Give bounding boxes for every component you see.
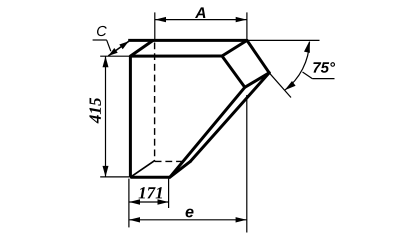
C measuring double arrow along chamfer: [108, 41, 128, 56]
415 top extension line: [100, 55, 129, 57]
back 75-degree face edge: [247, 40, 269, 72]
e right extension line: [246, 95, 248, 233]
415 bottom extension line: [100, 176, 129, 178]
A dimension line: [155, 19, 247, 21]
hidden back bottom edge (dashed): [155, 160, 186, 162]
415 dimension line: [105, 56, 107, 177]
A label: [195, 7, 205, 18]
angle horizontal reference line: [248, 39, 320, 41]
171 dimension line: [129, 201, 169, 203]
415 label: [89, 98, 101, 124]
A right extension line: [246, 12, 248, 39]
bottom-right receding edge: [170, 161, 191, 177]
A left extension line: [154, 12, 156, 41]
workpiece bottom edge: [130, 176, 170, 179]
C leader: [107, 40, 111, 51]
75 label leader: [303, 72, 313, 79]
171 left extension line: [128, 179, 130, 228]
workpiece front top edge: [130, 55, 222, 58]
hidden back-left vertical edge (dashed): [154, 43, 156, 161]
e dimension line: [129, 219, 247, 221]
75-degree face bottom edge: [245, 73, 269, 88]
C label: [97, 26, 107, 36]
workpiece front mitre diagonal: [170, 87, 245, 177]
e label: [186, 209, 194, 218]
workpiece left edge: [129, 56, 132, 177]
75 label underline: [312, 78, 334, 80]
75 degree label: [313, 62, 335, 73]
workpiece front 75-degree face edge: [222, 56, 245, 87]
bottom-left receding edge: [130, 161, 154, 178]
C underline: [93, 39, 107, 41]
top-right receding edge: [222, 40, 247, 56]
workpiece back top edge: [128, 39, 247, 42]
back mitre diagonal: [191, 73, 270, 162]
chamfer inner slant edge (top-left receding): [130, 41, 152, 57]
171 label: [139, 187, 162, 198]
angle arc: [285, 42, 310, 91]
angle inclined reference line: [269, 73, 291, 98]
171 right extension line: [168, 179, 170, 208]
